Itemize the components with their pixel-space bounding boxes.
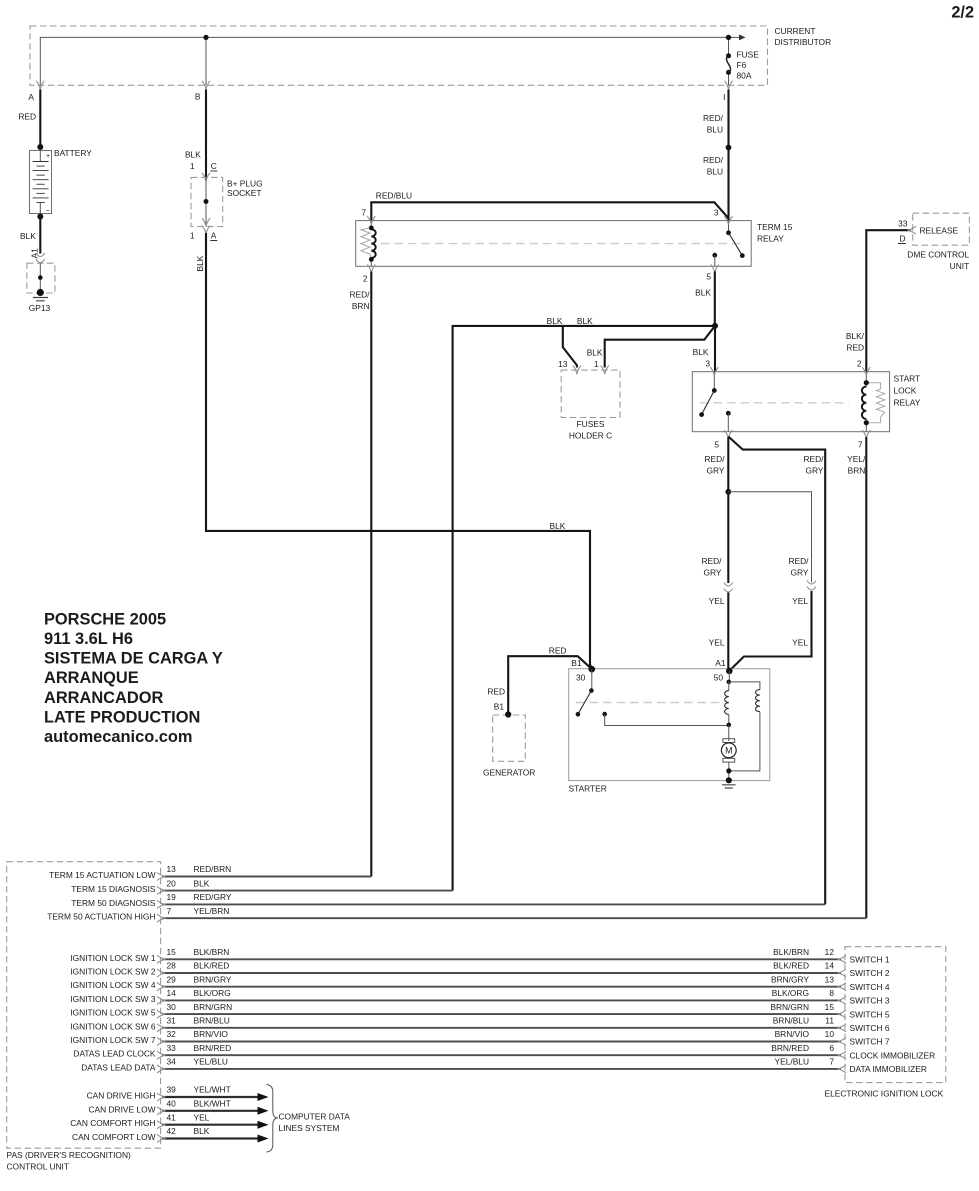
svg-text:IGNITION LOCK SW 3: IGNITION LOCK SW 3 <box>70 994 155 1004</box>
svg-text:RED: RED <box>487 687 505 697</box>
svg-text:B+ PLUG: B+ PLUG <box>227 179 263 189</box>
wire BLK from battery to A1 <box>20 217 40 254</box>
CAN row 40 labels <box>88 1099 230 1115</box>
wire RED/BLU from fuse down to term 15 relay pin 3 <box>727 90 729 221</box>
starter motor ground <box>722 762 736 788</box>
wire RED/BLU horizontal to term 15 relay pin 7 <box>371 202 728 220</box>
wire ignition row 28 BLK/RED <box>162 972 841 974</box>
wire BLK drop to fuses holder pin 13 <box>563 326 577 368</box>
svg-text:2: 2 <box>857 359 862 369</box>
term 15 relay pin 2 <box>363 265 375 284</box>
svg-text:GRY: GRY <box>704 568 722 578</box>
label YEL/BRN <box>847 454 866 476</box>
svg-text:HOLDER C: HOLDER C <box>569 431 612 441</box>
svg-text:+: + <box>46 153 50 160</box>
wire RED/GRY from pin 5 straight down to starter A1 <box>727 437 729 670</box>
label ELECTRONIC IGNITION LOCK <box>825 1089 944 1099</box>
svg-text:UNIT: UNIT <box>950 261 970 271</box>
term 15 relay internal dashed line <box>381 243 741 245</box>
labels RED/BLU vertical <box>703 113 724 177</box>
svg-text:RED/: RED/ <box>349 290 370 300</box>
svg-text:SWITCH 2: SWITCH 2 <box>850 968 890 978</box>
wire BLK from term15 pin5 to junction <box>695 272 715 326</box>
svg-text:13: 13 <box>825 974 835 984</box>
svg-text:BLK: BLK <box>693 347 709 357</box>
title text block <box>44 610 223 746</box>
svg-text:RED: RED <box>18 112 36 122</box>
node B junction dot on bus <box>203 35 208 40</box>
svg-text:TERM 15 ACTUATION LOW: TERM 15 ACTUATION LOW <box>49 870 155 880</box>
svg-text:1: 1 <box>190 231 195 241</box>
svg-text:RED: RED <box>846 343 864 353</box>
label STARTER <box>569 784 607 794</box>
current distributor dashed box <box>30 26 768 85</box>
wire ignition row 31 BRN/BLU <box>162 1027 841 1029</box>
ignition row 32 left labels <box>70 1029 228 1045</box>
svg-text:7: 7 <box>829 1057 834 1067</box>
ignition row 29 left labels <box>70 974 232 990</box>
wire BLK from B to B+ plug socket <box>185 90 206 178</box>
connector pin 1 at fuse exit <box>723 81 732 102</box>
ignition row 28 right labels SWITCH 2 <box>773 961 890 979</box>
svg-text:10: 10 <box>825 1029 835 1039</box>
svg-text:80A: 80A <box>737 71 752 81</box>
svg-text:ARRANCADOR: ARRANCADOR <box>44 689 163 707</box>
svg-text:RELEASE: RELEASE <box>920 226 959 236</box>
row 20 labels <box>71 878 209 894</box>
svg-text:7: 7 <box>858 440 863 450</box>
wire CAN row 42 BLK <box>162 1135 269 1143</box>
inline connector on left wire <box>724 583 733 593</box>
svg-text:YEL/BRN: YEL/BRN <box>194 906 230 916</box>
label PAS control unit <box>7 1150 131 1172</box>
svg-text:BLK/WHT: BLK/WHT <box>194 1099 231 1109</box>
ignition row 34 left labels <box>81 1057 228 1073</box>
svg-text:GRY: GRY <box>806 466 824 476</box>
svg-text:IGNITION LOCK SW 4: IGNITION LOCK SW 4 <box>70 980 155 990</box>
label BLK (rotated) below socket <box>195 255 205 271</box>
svg-text:STARTER: STARTER <box>569 784 607 794</box>
labels RED/GRY top pair <box>704 454 824 476</box>
svg-text:GP13: GP13 <box>29 303 51 313</box>
svg-text:YEL/BLU: YEL/BLU <box>775 1057 809 1067</box>
svg-text:C: C <box>211 161 217 171</box>
labels RED RED B1 <box>487 646 566 712</box>
svg-text:RED/: RED/ <box>704 454 725 464</box>
connector pin A at distributor exit <box>28 81 44 102</box>
ignition row 14 right labels SWITCH 3 <box>772 988 890 1006</box>
start lock relay pin 2 <box>857 359 870 376</box>
labels BLK BLK above horizontal <box>547 316 593 326</box>
svg-text:YEL: YEL <box>709 596 725 606</box>
svg-text:RED/: RED/ <box>788 556 809 566</box>
svg-text:M: M <box>725 746 732 756</box>
svg-text:BLK/BRN: BLK/BRN <box>194 947 230 957</box>
term 15 relay coil <box>361 221 376 267</box>
start lock relay pin 3 <box>705 359 718 376</box>
svg-text:FUSES: FUSES <box>577 419 605 429</box>
svg-text:BLU: BLU <box>707 125 723 135</box>
svg-text:BLK: BLK <box>695 288 711 298</box>
svg-text:BLU: BLU <box>707 167 723 177</box>
label BLK above pin 1 <box>587 348 603 358</box>
svg-text:IGNITION LOCK SW 5: IGNITION LOCK SW 5 <box>70 1008 155 1018</box>
inline connector A1 <box>36 253 45 263</box>
svg-text:SWITCH 1: SWITCH 1 <box>850 955 890 965</box>
svg-text:BRN/BLU: BRN/BLU <box>194 1016 230 1026</box>
svg-text:YEL/: YEL/ <box>847 454 866 464</box>
svg-text:RED/: RED/ <box>703 155 724 165</box>
starter box <box>569 669 770 781</box>
svg-text:5: 5 <box>706 272 711 282</box>
ignition row 31 left labels <box>70 1016 229 1032</box>
svg-text:F6: F6 <box>737 60 747 70</box>
svg-text:3: 3 <box>714 208 719 218</box>
label BATTERY <box>54 148 92 158</box>
label DME CONTROL UNIT <box>907 250 969 272</box>
label START LOCK RELAY <box>894 374 921 408</box>
svg-text:BLK/ORG: BLK/ORG <box>194 988 231 998</box>
svg-text:7: 7 <box>167 906 172 916</box>
svg-text:BLK/ORG: BLK/ORG <box>772 988 809 998</box>
svg-text:RED/: RED/ <box>803 454 824 464</box>
svg-text:CLOCK IMMOBILIZER: CLOCK IMMOBILIZER <box>850 1050 936 1060</box>
battery <box>30 144 52 220</box>
svg-text:BLK: BLK <box>194 1126 210 1136</box>
svg-text:RED/: RED/ <box>703 113 724 123</box>
wire thin branch from junction to right YEL riser <box>728 492 811 583</box>
wire: bus bar inside current distributor <box>40 37 728 85</box>
svg-text:20: 20 <box>167 878 177 888</box>
svg-text:2: 2 <box>363 274 368 284</box>
term 15 relay pin 7 <box>361 208 375 225</box>
svg-text:LINES SYSTEM: LINES SYSTEM <box>279 1123 340 1133</box>
DME pin 33 D connector <box>898 219 916 244</box>
wire ignition row 14 BLK/ORG <box>162 999 841 1001</box>
label GP13 <box>29 303 51 313</box>
svg-text:911 3.6L H6: 911 3.6L H6 <box>44 630 133 648</box>
svg-text:DATA IMMOBILIZER: DATA IMMOBILIZER <box>850 1064 927 1074</box>
relay TERM 15 box <box>356 221 752 267</box>
starter hold-in winding <box>729 682 760 771</box>
svg-text:BLK: BLK <box>547 316 563 326</box>
starter switch <box>576 669 729 725</box>
wire CAN row 41 YEL <box>162 1121 269 1129</box>
fuses holder C box <box>561 370 620 417</box>
label RELEASE <box>920 226 959 236</box>
junction dot on left RED/GRY <box>725 489 731 495</box>
svg-text:2/2: 2/2 <box>951 4 974 22</box>
svg-text:IGNITION LOCK SW 1: IGNITION LOCK SW 1 <box>70 953 155 963</box>
fuses holder pin 1 <box>594 359 609 374</box>
term 15 relay switch <box>712 221 744 267</box>
fuse F6 80A <box>726 35 731 86</box>
svg-text:BLK/RED: BLK/RED <box>773 961 809 971</box>
svg-text:SWITCH 7: SWITCH 7 <box>850 1037 890 1047</box>
ignition row 30 left labels <box>70 1002 232 1018</box>
label GENERATOR <box>483 768 535 778</box>
start lock relay pin 7 <box>858 430 870 450</box>
svg-text:RED/GRY: RED/GRY <box>194 892 232 902</box>
svg-text:CONTROL UNIT: CONTROL UNIT <box>7 1162 70 1172</box>
label RED/BRN <box>349 290 370 312</box>
svg-text:BRN/VIO: BRN/VIO <box>194 1029 229 1039</box>
wire CAN row 39 YEL/WHT <box>162 1093 269 1101</box>
svg-text:A: A <box>28 92 34 102</box>
wire CAN row 40 BLK/WHT <box>162 1107 269 1115</box>
wire row 20 BLK TERM 15 DIAGNOSIS <box>162 890 453 892</box>
svg-text:40: 40 <box>167 1099 177 1109</box>
start lock relay switch <box>699 372 731 432</box>
svg-text:BATTERY: BATTERY <box>54 148 92 158</box>
ground point GP13 <box>27 263 55 301</box>
svg-text:BLK: BLK <box>587 348 603 358</box>
ignition row 28 left labels <box>70 961 229 977</box>
svg-text:CAN COMFORT HIGH: CAN COMFORT HIGH <box>70 1118 155 1128</box>
svg-text:IGNITION LOCK SW 6: IGNITION LOCK SW 6 <box>70 1021 155 1031</box>
wire RED from generator to starter B1 <box>508 656 592 713</box>
svg-text:A1: A1 <box>715 658 726 668</box>
label COMPUTER DATA LINES SYSTEM <box>279 1112 351 1134</box>
svg-text:15: 15 <box>167 947 177 957</box>
svg-text:DISTRIBUTOR: DISTRIBUTOR <box>775 37 832 47</box>
wire BLK/RED from DME pin 33 D to start lock pin 2 <box>866 230 911 372</box>
svg-text:ARRANQUE: ARRANQUE <box>44 669 139 687</box>
label CURRENT DISTRIBUTOR <box>775 26 832 47</box>
B+ plug socket <box>191 177 223 226</box>
CAN row 39 labels <box>87 1085 231 1101</box>
wire row 13 RED/BRN TERM 15 ACTUATION LOW <box>162 876 371 878</box>
svg-text:13: 13 <box>558 359 568 369</box>
svg-text:TERM 15 DIAGNOSIS: TERM 15 DIAGNOSIS <box>71 884 156 894</box>
start lock relay pin 5 <box>714 430 732 450</box>
svg-text:BRN: BRN <box>848 466 866 476</box>
wire ignition row 15 BLK/BRN <box>162 958 841 960</box>
svg-text:29: 29 <box>167 974 177 984</box>
row 13 labels <box>49 864 231 880</box>
wire BLK from B+ socket to starter B1 <box>206 233 592 669</box>
svg-text:6: 6 <box>829 1043 834 1053</box>
wire ignition row 29 BRN/GRY <box>162 986 841 988</box>
ignition row 34 right labels DATA IMMOBILIZER <box>775 1057 927 1075</box>
svg-text:BLK: BLK <box>185 150 201 160</box>
svg-text:GRY: GRY <box>791 568 809 578</box>
svg-text:GENERATOR: GENERATOR <box>483 768 535 778</box>
label A1 (rotated) <box>29 248 39 259</box>
svg-text:I: I <box>723 92 725 102</box>
svg-text:39: 39 <box>167 1085 177 1095</box>
svg-text:ELECTRONIC IGNITION LOCK: ELECTRONIC IGNITION LOCK <box>825 1089 944 1099</box>
fuses holder pin 13 <box>558 359 581 374</box>
pin 1 C of B+ plug socket <box>190 161 217 181</box>
wire YEL/BRN from pin 7 down to PAS row 7 <box>865 437 867 918</box>
ignition row 15 right labels SWITCH 1 <box>773 947 890 965</box>
svg-text:12: 12 <box>825 947 835 957</box>
svg-text:BRN/GRY: BRN/GRY <box>194 974 232 984</box>
svg-text:7: 7 <box>361 208 366 218</box>
term 15 relay pin 3 <box>714 208 733 225</box>
ignition row 32 right labels SWITCH 7 <box>775 1029 890 1047</box>
start lock relay internal dashed line <box>700 402 849 404</box>
svg-text:BLK: BLK <box>550 521 566 531</box>
svg-text:PAS (DRIVER'S RECOGNITION): PAS (DRIVER'S RECOGNITION) <box>7 1150 131 1160</box>
svg-text:SWITCH 5: SWITCH 5 <box>850 1009 890 1019</box>
ignition row 14 left labels <box>70 988 230 1004</box>
connector pin B at distributor exit <box>195 81 210 102</box>
svg-text:TERM 50 ACTUATION HIGH: TERM 50 ACTUATION HIGH <box>47 912 155 922</box>
inline connector on right wire <box>807 581 816 591</box>
svg-text:BLK: BLK <box>195 255 205 271</box>
svg-text:A1: A1 <box>29 248 39 259</box>
svg-text:FUSE: FUSE <box>737 50 760 60</box>
ignition row 15 left labels <box>70 947 229 963</box>
svg-text:RED/: RED/ <box>701 556 722 566</box>
electronic ignition lock dashed box <box>845 947 946 1083</box>
label RED/BLU horizontal <box>376 191 412 201</box>
wire BLK branch to fuses holder pin 1 <box>605 326 715 368</box>
svg-text:BRN/RED: BRN/RED <box>194 1043 232 1053</box>
arrow at right end of bus <box>729 34 746 40</box>
svg-text:COMPUTER DATA: COMPUTER DATA <box>279 1112 351 1122</box>
svg-text:33: 33 <box>898 219 908 229</box>
ignition row 33 left labels <box>73 1043 231 1059</box>
ignition row 33 right labels CLOCK IMMOBILIZER <box>771 1043 935 1061</box>
svg-text:32: 32 <box>167 1029 177 1039</box>
svg-text:30: 30 <box>576 673 586 683</box>
svg-text:RED: RED <box>549 646 567 656</box>
svg-text:DATAS LEAD CLOCK: DATAS LEAD CLOCK <box>73 1049 155 1059</box>
svg-text:B: B <box>195 92 201 102</box>
svg-text:YEL: YEL <box>792 596 808 606</box>
ignition row 29 right labels SWITCH 4 <box>771 974 890 992</box>
label fuse <box>737 50 760 81</box>
svg-text:3: 3 <box>705 359 710 369</box>
svg-text:SWITCH 4: SWITCH 4 <box>850 982 890 992</box>
svg-text:11: 11 <box>825 1016 834 1026</box>
start lock relay coil <box>862 372 885 432</box>
svg-text:BRN/GRN: BRN/GRN <box>194 1002 233 1012</box>
svg-text:13: 13 <box>167 864 177 874</box>
wire BLK from junction to start lock relay pin 3 <box>693 326 715 372</box>
generator box <box>493 711 526 761</box>
svg-text:BRN: BRN <box>352 301 370 311</box>
svg-text:SISTEMA DE CARGA Y: SISTEMA DE CARGA Y <box>44 650 223 668</box>
junction dot RED/BLU <box>726 145 732 151</box>
svg-text:BLK: BLK <box>20 231 36 241</box>
svg-text:D: D <box>899 234 905 244</box>
svg-text:14: 14 <box>825 961 835 971</box>
relay START LOCK box <box>692 372 889 432</box>
svg-text:41: 41 <box>167 1112 177 1122</box>
svg-text:START: START <box>894 374 921 384</box>
pin 1 A of B+ plug socket <box>190 226 217 241</box>
node B1 30 <box>571 658 595 683</box>
wire RED from A to battery <box>18 90 40 148</box>
svg-text:33: 33 <box>167 1043 177 1053</box>
svg-text:TERM 15: TERM 15 <box>757 222 793 232</box>
svg-text:BLK/BRN: BLK/BRN <box>773 947 809 957</box>
wire row 19 RED/GRY TERM 50 DIAGNOSIS <box>162 903 825 905</box>
ignition row 30 right labels SWITCH 5 <box>770 1002 889 1020</box>
label BLK/RED <box>846 331 865 353</box>
svg-text:YEL: YEL <box>792 638 808 648</box>
svg-text:30: 30 <box>167 1002 177 1012</box>
svg-text:LOCK: LOCK <box>894 386 917 396</box>
svg-text:SWITCH 6: SWITCH 6 <box>850 1023 890 1033</box>
svg-text:BLK: BLK <box>577 316 593 326</box>
svg-text:15: 15 <box>825 1002 835 1012</box>
svg-text:50: 50 <box>714 673 724 683</box>
svg-text:34: 34 <box>167 1057 177 1067</box>
svg-text:8: 8 <box>829 988 834 998</box>
starter pull-in winding <box>725 671 731 727</box>
svg-text:BRN/GRY: BRN/GRY <box>771 974 809 984</box>
wire ignition row 30 BRN/GRN <box>162 1013 841 1015</box>
wire RED/GRY diagonal branch to right riser, down to PAS row 19 <box>728 437 825 905</box>
svg-text:BLK/RED: BLK/RED <box>194 961 230 971</box>
svg-text:TERM 50 DIAGNOSIS: TERM 50 DIAGNOSIS <box>71 898 156 908</box>
svg-text:−: − <box>46 208 50 215</box>
svg-text:42: 42 <box>167 1126 177 1136</box>
term 15 relay pin 5 <box>706 265 718 282</box>
row 19 labels <box>71 892 232 908</box>
label B+ PLUG SOCKET <box>227 179 263 199</box>
svg-text:GRY: GRY <box>707 466 725 476</box>
svg-text:YEL/WHT: YEL/WHT <box>194 1085 231 1095</box>
labels RED/GRY mid pair <box>701 556 809 578</box>
svg-text:B1: B1 <box>494 702 505 712</box>
DME control unit box <box>913 213 970 245</box>
wire row 7 YEL/BRN TERM 50 ACTUATION HIGH <box>162 917 866 919</box>
label BLK on run to starter <box>550 521 566 531</box>
svg-text:YEL: YEL <box>194 1112 210 1122</box>
svg-text:RED/BRN: RED/BRN <box>194 864 232 874</box>
svg-text:IGNITION LOCK SW 7: IGNITION LOCK SW 7 <box>70 1035 155 1045</box>
svg-text:BLK: BLK <box>194 878 210 888</box>
ignition row 31 right labels SWITCH 6 <box>773 1016 890 1034</box>
svg-text:1: 1 <box>190 161 195 171</box>
wire ignition row 33 BRN/RED <box>162 1054 841 1056</box>
svg-text:BRN/GRN: BRN/GRN <box>770 1002 809 1012</box>
svg-text:5: 5 <box>714 440 719 450</box>
svg-text:RELAY: RELAY <box>757 234 784 244</box>
row 7 labels <box>47 906 229 922</box>
starter motor M <box>721 725 736 762</box>
CAN row 41 labels <box>70 1112 209 1128</box>
svg-text:YEL: YEL <box>709 638 725 648</box>
svg-text:DATAS LEAD DATA: DATAS LEAD DATA <box>81 1062 156 1072</box>
svg-text:19: 19 <box>167 892 177 902</box>
svg-text:CAN DRIVE LOW: CAN DRIVE LOW <box>88 1104 155 1114</box>
wire RED/BRN from term15 pin2 down to PAS row 13 <box>370 272 372 877</box>
svg-text:BRN/RED: BRN/RED <box>771 1043 809 1053</box>
svg-text:BRN/BLU: BRN/BLU <box>773 1016 809 1026</box>
wire ignition row 32 BRN/VIO <box>162 1041 841 1043</box>
svg-text:RED/BLU: RED/BLU <box>376 191 412 201</box>
svg-text:DME CONTROL: DME CONTROL <box>907 250 969 260</box>
page number 2/2 <box>951 4 974 22</box>
svg-text:RELAY: RELAY <box>894 398 921 408</box>
svg-text:PORSCHE 2005: PORSCHE 2005 <box>44 610 166 628</box>
label FUSES HOLDER C <box>569 419 612 441</box>
svg-text:SOCKET: SOCKET <box>227 188 261 198</box>
svg-text:28: 28 <box>167 961 177 971</box>
svg-text:IGNITION LOCK SW 2: IGNITION LOCK SW 2 <box>70 967 155 977</box>
svg-text:14: 14 <box>167 988 177 998</box>
wire BLK horizontal to riser <box>453 326 715 891</box>
svg-text:BRN/VIO: BRN/VIO <box>775 1029 810 1039</box>
node A1 50 <box>714 658 733 683</box>
